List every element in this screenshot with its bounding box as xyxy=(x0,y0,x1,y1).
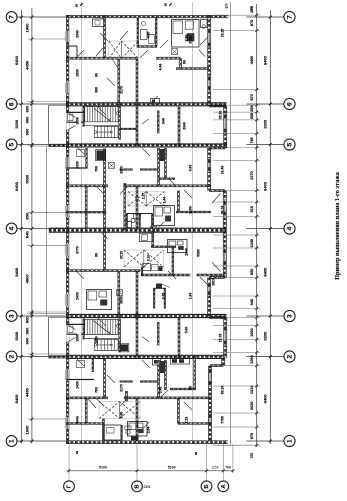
dim tick axis 4 on right chain xyxy=(269,227,272,230)
axis В wall band 6-5 xyxy=(135,107,137,146)
svg-text:380: 380 xyxy=(94,87,98,93)
svg-text:2270: 2270 xyxy=(250,171,254,179)
duct unit near stairwell 1 xyxy=(97,151,106,161)
axis circle Б (bottom) xyxy=(201,481,212,492)
svg-text:50.24: 50.24 xyxy=(220,206,224,215)
partition y=389 band 2-1 xyxy=(170,387,196,389)
svg-text:СУЗ: СУЗ xyxy=(144,485,151,489)
wall x=158 band 5-4 xyxy=(157,148,159,186)
svg-text:8.86: 8.86 xyxy=(119,412,123,419)
axis circle 2 (right) xyxy=(284,351,295,362)
dim tick axis 2 on left chains xyxy=(20,355,23,358)
svg-text:1690: 1690 xyxy=(75,117,79,125)
exterior wall stub at y=148.0 xyxy=(209,146,225,148)
wall x=104 band mid xyxy=(103,186,105,231)
bottom dimension chain line (y=470.8) xyxy=(67,470,234,472)
axis 5 line (left) xyxy=(17,144,66,146)
svg-text:585: 585 xyxy=(250,113,254,119)
svg-text:1690: 1690 xyxy=(75,334,79,342)
vestibule partition upper (stair 1 left) xyxy=(67,111,85,113)
svg-text:2: 2 xyxy=(286,355,293,359)
closet in vestibule stair 2 xyxy=(68,326,74,333)
entrance door leaves (porch 2) xyxy=(69,326,76,330)
window dimension ticks and extension lines (right chain) xyxy=(213,14,260,447)
axis circle 4 (right) xyxy=(284,223,295,234)
vestibule partition lower (stair 1 left) xyxy=(67,121,78,123)
svg-text:700: 700 xyxy=(225,466,231,470)
fixture against top wall (kitchen top-left) xyxy=(93,19,106,27)
axis 5 bearing wall xyxy=(66,143,227,145)
wall x=104 band 4-3 (section2) xyxy=(103,231,105,271)
sanitary block (top, near axis 7) xyxy=(172,20,200,48)
hall wall x=119 band 7-6 xyxy=(117,59,119,107)
svg-text:6400: 6400 xyxy=(14,394,19,404)
axis line chain, overall dimension line (left, x=21.4) xyxy=(20,10,22,444)
WC fixture near facade (top right) xyxy=(201,20,208,28)
svg-text:3770: 3770 xyxy=(75,246,79,254)
axis 1 line (right) xyxy=(247,440,285,442)
hall wall x=119 band 3 xyxy=(117,271,119,318)
vestibule partition lower (stair 2 left) xyxy=(67,333,78,335)
dim tick top x=170 xyxy=(169,3,172,6)
ventilation shafts (crossed squares) xyxy=(109,49,178,369)
partition below bathroom block (band 7-6) xyxy=(176,67,209,69)
sub dimension chain line (left, x=31.9) xyxy=(31,8,33,444)
axis Г extension line (bottom) xyxy=(68,442,70,482)
entrance porch (left, axes 3-2) xyxy=(48,317,50,355)
extension line x=232.9 (bottom right) xyxy=(232,444,234,473)
svg-text:910: 910 xyxy=(250,206,254,212)
svg-text:2040: 2040 xyxy=(184,248,188,256)
dim tick top x=81.5 xyxy=(80,3,83,6)
axis 3 line (left) xyxy=(17,315,66,317)
svg-text:6400: 6400 xyxy=(262,181,267,191)
axis circle 1 (right) xyxy=(284,435,295,446)
bathroom walls top-center xyxy=(136,18,138,47)
axis 3 line (right) xyxy=(247,315,285,317)
corridor partition y=128.8 band 6-5 xyxy=(120,127,137,129)
dim tick axis В on bottom chain xyxy=(136,470,139,473)
svg-text:650: 650 xyxy=(25,212,30,219)
svg-text:386: 386 xyxy=(250,105,254,111)
partition wall y=270 left xyxy=(66,269,140,271)
svg-text:1500: 1500 xyxy=(250,328,254,336)
dim tick axis 1 on left chains xyxy=(20,440,23,443)
svg-text:5980: 5980 xyxy=(196,249,200,257)
svg-text:7756: 7756 xyxy=(220,416,224,424)
svg-text:600: 600 xyxy=(25,316,30,323)
sanitary block (bottom, near axis 1) xyxy=(128,422,148,437)
stairwell 2 (axes 3-2) with flights xyxy=(82,319,84,340)
wall stub x=142 above y=275 wall xyxy=(141,267,143,276)
dim tick axis Б on bottom chain xyxy=(205,470,208,473)
dim tick axis Г on bottom chain xyxy=(68,470,71,473)
dashed antresol box B (hall, axes 5-4) xyxy=(128,192,165,207)
svg-text:5.45: 5.45 xyxy=(184,327,188,334)
exterior wall stub at y=106.0 xyxy=(209,104,225,106)
svg-text:80: 80 xyxy=(94,253,98,257)
exterior wall (right segment 6) xyxy=(223,318,225,359)
svg-text:1830: 1830 xyxy=(75,69,79,77)
svg-text:4.44: 4.44 xyxy=(158,64,162,71)
svg-text:3040: 3040 xyxy=(75,416,79,424)
axis В wall band 3 xyxy=(135,271,137,318)
axis 1 line (left) xyxy=(17,440,66,442)
duct unit near stairwell 2 xyxy=(120,345,128,352)
exterior wall (right segment 2) xyxy=(223,106,225,148)
svg-text:80: 80 xyxy=(75,451,79,455)
svg-text:760: 760 xyxy=(94,387,98,393)
svg-text:4.65: 4.65 xyxy=(146,32,150,39)
bathroom fixtures top-center xyxy=(141,30,148,40)
dim tick axis 7 on left chains xyxy=(20,16,23,19)
svg-text:2.27: 2.27 xyxy=(141,193,145,200)
axis span chain line (right, x=270.3) xyxy=(269,10,271,444)
duct shaft between walls band 2-1 xyxy=(160,361,165,373)
svg-text:2430: 2430 xyxy=(75,161,79,169)
svg-text:1: 1 xyxy=(8,439,15,443)
vestibule partition upper (stair 2 left) xyxy=(67,323,85,325)
svg-text:1: 1 xyxy=(286,439,293,443)
svg-text:Б: Б xyxy=(204,484,210,488)
axis 2 bearing wall xyxy=(66,354,224,356)
svg-text:2.18: 2.18 xyxy=(184,417,188,424)
svg-text:5100: 5100 xyxy=(99,466,107,470)
svg-text:15.76: 15.76 xyxy=(218,334,222,343)
lobby partition below stair 1 xyxy=(85,148,87,168)
dim tick axis 5 on left chains xyxy=(20,143,23,146)
svg-text:50.24: 50.24 xyxy=(220,386,224,395)
svg-text:6400: 6400 xyxy=(14,55,19,65)
exterior wall (right segment 5) xyxy=(207,278,209,318)
exterior wall stub at y=277.5 xyxy=(209,276,225,278)
svg-text:940: 940 xyxy=(250,299,254,305)
dim tick axis 5 on right chain xyxy=(269,143,272,146)
partition wall y=275 mid xyxy=(141,273,191,275)
axis 7 line (right) xyxy=(247,16,285,18)
axis circle 6 (right) xyxy=(284,98,295,109)
svg-text:4800: 4800 xyxy=(25,274,30,284)
axis 6 bearing wall xyxy=(66,102,227,104)
svg-text:4450: 4450 xyxy=(25,387,30,397)
corridor partition y=381.5 band 2-1 xyxy=(120,380,133,382)
svg-text:6400: 6400 xyxy=(14,267,19,277)
svg-text:1310: 1310 xyxy=(250,386,254,394)
axis circle 5 (right) xyxy=(284,139,295,150)
hall wall x=125 band 4 xyxy=(123,183,125,231)
svg-text:2190: 2190 xyxy=(188,206,192,214)
svg-text:80: 80 xyxy=(194,452,198,456)
lobby partition below stair 2 xyxy=(91,358,93,373)
axis circle В (bottom) xyxy=(132,481,143,492)
wall stub x=126 bottom xyxy=(125,391,127,402)
svg-text:16.26: 16.26 xyxy=(220,29,224,38)
windows in right facade xyxy=(208,28,227,427)
svg-text:760: 760 xyxy=(94,166,98,172)
svg-text:3200: 3200 xyxy=(14,331,19,341)
dim tick axis 3 on right chain xyxy=(269,315,272,318)
dimension chain line (right inner, x=256.7) xyxy=(256,4,258,447)
dashed antresol box A (hall, axes 7-6) xyxy=(109,41,139,59)
axis circle 3 (right) xyxy=(284,310,295,321)
svg-text:370: 370 xyxy=(250,453,254,459)
svg-text:850: 850 xyxy=(250,269,254,275)
axis Б extension line (bottom) xyxy=(206,442,208,482)
axis 4 bearing wall xyxy=(49,227,226,229)
svg-text:1900: 1900 xyxy=(25,23,30,33)
svg-text:6400: 6400 xyxy=(262,55,267,65)
partition wall y=186 left xyxy=(66,184,108,186)
svg-text:4: 4 xyxy=(8,227,15,231)
partition y=423.5 left rooms xyxy=(66,422,105,424)
fixtures against y=275 wall xyxy=(143,264,151,271)
svg-text:3170: 3170 xyxy=(119,86,123,94)
svg-text:1.44: 1.44 xyxy=(162,197,166,204)
svg-text:870: 870 xyxy=(250,433,254,439)
partition wall y=186 right xyxy=(124,184,211,186)
svg-text:5: 5 xyxy=(8,143,15,147)
room divider band 3-2 xyxy=(177,318,179,359)
svg-text:80: 80 xyxy=(74,4,78,8)
wall x=178 right rooms bottom xyxy=(177,398,179,424)
wall x=104 band 5-4 left xyxy=(103,149,105,186)
svg-text:4: 4 xyxy=(286,227,293,231)
duct shaft between walls band 5-4 xyxy=(160,149,165,161)
partition above axis 4 right rooms xyxy=(176,210,211,212)
exterior wall stub at y=358.0 xyxy=(223,356,225,358)
svg-text:7: 7 xyxy=(286,15,293,19)
wall x=180 band 7-6 xyxy=(179,58,181,68)
duct wall x=165 band 2-1 xyxy=(164,360,166,390)
lobby duct below stair 2 xyxy=(77,361,85,368)
stairwell 1 (axes 6-5) with flights xyxy=(82,106,84,127)
axis 2 line (left) xyxy=(17,356,66,358)
svg-text:Пример выполнения плана 1-го э: Пример выполнения плана 1-го этажа xyxy=(334,172,341,280)
svg-text:5000: 5000 xyxy=(25,174,30,184)
svg-text:3130: 3130 xyxy=(188,36,192,44)
room divider x=158 band 6-5 xyxy=(157,111,159,134)
kitchen counter against axis 2 wall xyxy=(171,358,190,364)
svg-text:3170: 3170 xyxy=(119,166,123,174)
svg-text:1.64: 1.64 xyxy=(188,293,192,300)
door leaf lines (all apartments) xyxy=(76,31,221,431)
extension line x=192.5 (full height) xyxy=(192,2,194,443)
wall x=86 bottom band xyxy=(84,398,86,424)
exterior wall (left, axis Г) xyxy=(65,15,67,444)
dashed antresol box C (hall, axes 4-3) xyxy=(124,250,164,267)
svg-text:А: А xyxy=(221,484,227,488)
kitchen counter at axis 6 wall xyxy=(151,99,160,105)
sanitary fixtures above axis 4 xyxy=(131,218,135,222)
svg-text:3.10: 3.10 xyxy=(146,255,150,262)
svg-text:1060: 1060 xyxy=(250,355,254,363)
svg-text:870: 870 xyxy=(250,94,254,100)
wall x=86 band mid section1 xyxy=(84,186,86,228)
svg-text:600: 600 xyxy=(25,105,30,112)
dark fixture at bottom wall xyxy=(131,436,139,440)
room divider x=158 band 3-2 xyxy=(157,322,159,346)
svg-text:5100: 5100 xyxy=(168,466,176,470)
svg-text:270: 270 xyxy=(224,3,228,8)
closet at left wall y=46 xyxy=(76,46,78,58)
svg-text:3.46: 3.46 xyxy=(158,387,162,394)
svg-text:840: 840 xyxy=(25,230,30,237)
wall x=178 right rooms xyxy=(177,191,179,212)
exterior wall (right segment 1) xyxy=(207,15,209,106)
svg-text:6.93: 6.93 xyxy=(188,165,192,172)
partition y=178.6 small room xyxy=(159,177,175,179)
svg-text:795: 795 xyxy=(250,137,254,143)
svg-text:6: 6 xyxy=(286,102,293,106)
svg-text:80: 80 xyxy=(188,386,192,390)
axis 5 line (right) xyxy=(247,144,285,146)
axis circle 5 (left) xyxy=(6,139,17,150)
dim tick axis А on bottom chain xyxy=(222,470,225,473)
axis 6 line (left) xyxy=(17,103,66,105)
axis А extension line (bottom) xyxy=(222,442,224,482)
duct wall x=165 band 5-4 xyxy=(164,148,166,178)
wall x=152.7 below axis 4 xyxy=(151,231,153,247)
axis В wall bottom xyxy=(135,398,137,441)
svg-text:270: 270 xyxy=(249,6,253,11)
dim tick axis 7 on right chain xyxy=(269,16,272,19)
dashed antresol box D (hall, axes 2-1) xyxy=(99,402,140,419)
dim tick axis 2 on right chain xyxy=(269,355,272,358)
sub dimension ticks and extension lines (left) xyxy=(28,16,67,443)
svg-text:6400: 6400 xyxy=(262,267,267,277)
sanitary block (axes 4-3, left) xyxy=(87,290,112,310)
extension line x=81.5 (full height) xyxy=(81,2,83,443)
axis circle 3 (left) xyxy=(6,311,17,322)
svg-text:900: 900 xyxy=(25,327,30,334)
svg-text:80: 80 xyxy=(182,60,186,64)
wall x=103 bathroom left xyxy=(102,419,104,441)
exterior wall (top, axis 7) xyxy=(66,14,228,16)
wall x=194.6 band 2-1 xyxy=(193,356,195,389)
exterior wall (right segment 7) xyxy=(221,358,223,366)
dim tick axis 1 on right chain xyxy=(269,440,272,443)
axis circle Г (bottom) xyxy=(64,481,75,492)
svg-text:3200: 3200 xyxy=(262,331,267,341)
exterior wall (right segment 4) xyxy=(222,191,224,278)
svg-text:6: 6 xyxy=(8,102,15,106)
wall x=158 band 2-1 xyxy=(157,360,159,398)
exterior wall (right segment 8) xyxy=(208,366,210,442)
partition y=212 left rooms xyxy=(66,211,106,213)
axis circle 7 (left) xyxy=(6,12,17,23)
axis circle 2 (left) xyxy=(6,351,17,362)
svg-text:9С15: 9С15 xyxy=(119,251,123,259)
svg-text:3200: 3200 xyxy=(14,119,19,129)
svg-text:6400: 6400 xyxy=(14,181,19,191)
dim tick end (bottom chain) xyxy=(232,470,235,473)
svg-text:3030: 3030 xyxy=(119,296,123,304)
axis 4 line (right) xyxy=(247,228,285,230)
axis В wall band 6 xyxy=(135,58,137,107)
partition wall y=58 right xyxy=(156,56,180,58)
sanitary unit (axis 4 area B) xyxy=(168,240,188,253)
lobby duct below stair 1 xyxy=(77,150,85,157)
dim tick axis 3 on left chains xyxy=(20,315,23,318)
svg-text:900: 900 xyxy=(25,128,30,135)
sanitary block (axes 5-4 mid) xyxy=(154,206,175,226)
axis В wall band 3-2 xyxy=(135,313,137,358)
svg-text:35.30: 35.30 xyxy=(218,111,222,120)
room dimension and area labels xyxy=(75,29,224,434)
partition wall y=275 right xyxy=(197,273,225,275)
closet in vestibule stair 1 xyxy=(68,114,74,121)
axis 3 bearing wall xyxy=(66,313,227,315)
axis circle 1 (left) xyxy=(6,436,17,447)
exterior wall stub at y=317.5 xyxy=(209,316,225,318)
wall x=175.4 band 4-3 xyxy=(171,247,173,276)
entrance porch (left, axes 6-5) xyxy=(48,105,50,144)
svg-text:1240: 1240 xyxy=(250,239,254,247)
axis circle А (bottom) xyxy=(218,481,229,492)
partition right rooms bottom band xyxy=(178,422,209,424)
svg-text:80: 80 xyxy=(163,3,167,7)
partition below axis 4 right rooms xyxy=(151,245,176,247)
dim tick axis 6 on right chain xyxy=(269,103,272,106)
dim tick axis 6 on left chains xyxy=(20,103,23,106)
svg-text:5: 5 xyxy=(286,143,293,147)
toilet bottom right of bathroom xyxy=(126,430,130,434)
axis В wall band 4 xyxy=(135,186,137,231)
partition wall y=398 right xyxy=(124,396,211,398)
room divider band 6-5 xyxy=(177,107,179,146)
bathroom walls above axis 4 xyxy=(125,214,127,229)
exterior wall (right segment 3) xyxy=(207,148,209,191)
corridor partition y=169.5 band 5-4 xyxy=(120,168,133,170)
svg-text:2.65: 2.65 xyxy=(161,293,165,300)
svg-text:2.04: 2.04 xyxy=(146,427,150,434)
svg-text:1900: 1900 xyxy=(25,425,30,435)
svg-text:10.49: 10.49 xyxy=(220,166,224,175)
axis circle 4 (left) xyxy=(6,223,17,234)
axis circle 6 (left) xyxy=(6,99,17,110)
partition wall y=58 left xyxy=(66,56,138,58)
entrance door opening left wall y112.5 xyxy=(66,113,69,131)
partition wall y=398 left xyxy=(66,396,108,398)
exterior wall stub at y=365.6 xyxy=(210,364,223,366)
windows in left wall xyxy=(65,31,69,430)
kitchen counter at axis 2 wall left xyxy=(153,359,161,366)
svg-text:1910: 1910 xyxy=(211,278,215,286)
svg-text:3200: 3200 xyxy=(262,119,267,129)
canopy line along left side xyxy=(46,147,48,317)
svg-text:940: 940 xyxy=(161,118,165,124)
dim tick axis 4 on left chains xyxy=(20,227,23,230)
svg-text:3: 3 xyxy=(8,314,15,318)
svg-text:2430: 2430 xyxy=(75,292,79,300)
axis 7 line (left) xyxy=(17,16,66,18)
svg-text:3340: 3340 xyxy=(182,122,186,130)
svg-text:900: 900 xyxy=(25,337,30,344)
bathroom at bottom wall xyxy=(104,425,122,440)
axis В extension line (bottom) xyxy=(136,442,138,482)
axis 4 line (left) xyxy=(17,228,66,230)
duct shaft below y=275 wall xyxy=(153,288,155,308)
svg-text:6400: 6400 xyxy=(262,394,267,404)
entrance door leaves (porch 1) xyxy=(69,114,76,118)
svg-text:1650: 1650 xyxy=(94,336,98,344)
axis circle 7 (right) xyxy=(284,11,295,22)
svg-text:2: 2 xyxy=(8,355,15,359)
svg-text:4460: 4460 xyxy=(250,56,254,64)
svg-text:80: 80 xyxy=(94,73,98,77)
svg-text:7: 7 xyxy=(8,15,15,19)
axis centerlines through building (dash-dot) xyxy=(66,17,226,441)
